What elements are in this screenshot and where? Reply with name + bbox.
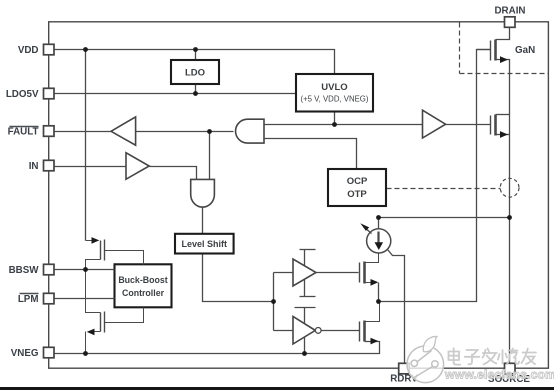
wire IN pin to buffer (55, 166, 127, 168)
svg-text:www.elecfans.com: www.elecfans.com (444, 368, 554, 382)
svg-text:OTP: OTP (347, 189, 367, 200)
wire LDO bottom stub (195, 85, 197, 94)
node driver input (271, 299, 276, 304)
pin squares (44, 17, 516, 374)
op-amp style inverter to FAULT (left pointing triangle) (111, 117, 136, 145)
wire LDO5V rail (55, 93, 297, 95)
wire buffer out to right FET gate (446, 124, 491, 126)
Buck-Boost Controller box (115, 264, 172, 307)
LDO box (171, 60, 219, 84)
svg-text:BBSW: BBSW (9, 265, 40, 276)
wire small AND output to Level Shift (202, 208, 204, 234)
pin LDO5V (44, 88, 55, 99)
wire upper buffer output to FET gate (317, 272, 359, 274)
svg-text:VDD: VDD (18, 45, 39, 56)
svg-text:VNEG: VNEG (11, 348, 39, 359)
Level Shift box (175, 234, 234, 254)
node VNEG/buffer (302, 351, 307, 356)
lower buffer bottom stub to VNEG (304, 338, 306, 354)
dashed GaN region left side (459, 23, 461, 74)
char dian (449, 348, 461, 364)
wire RDRV drop (388, 250, 405, 365)
pin VNEG (44, 347, 55, 358)
svg-text:GaN: GaN (515, 45, 535, 56)
bottom black bar (0, 387, 554, 390)
dashed GaN region bottom side (460, 73, 549, 75)
node FAULT/AND2 (207, 129, 212, 134)
wire right FET source down (496, 134, 510, 136)
char fa (483, 349, 497, 365)
transistor buck-boost upper FET (86, 237, 144, 269)
pin RDRV (399, 363, 410, 374)
node LDO5V/LDO (193, 91, 198, 96)
transistor buck-boost lower FET (86, 270, 144, 354)
IC boundary box (49, 22, 549, 368)
wire LDO top stub (195, 50, 197, 61)
pin FAULT (44, 126, 55, 137)
wire LPM to controller (55, 298, 115, 300)
node isrc rail right (507, 215, 512, 220)
pin DRAIN (505, 17, 516, 28)
transistor mid driver FET upper (360, 253, 379, 302)
pin SOURCE (505, 363, 516, 374)
svg-text:IN: IN (29, 161, 39, 172)
transistor mid driver FET lower (360, 302, 380, 345)
svg-text:LDO: LDO (185, 68, 205, 79)
svg-text:DRAIN: DRAIN (494, 6, 525, 17)
svg-text:Controller: Controller (122, 288, 165, 298)
node VDD/leftdrop (83, 47, 88, 52)
wire VNEG rail (55, 342, 380, 354)
FAULT overline (10, 126, 39, 128)
wire driver input branch vertical (273, 273, 275, 331)
char you (522, 349, 537, 365)
pin BBSW (44, 264, 55, 275)
wire OCP to dashed circle (dashed) (387, 188, 501, 190)
wire DRAIN to GaN drain (496, 28, 510, 40)
upper buffer top supply bar (300, 250, 316, 266)
lower driver inverter triangle (293, 317, 315, 345)
wire AND top input from buffer line (265, 124, 423, 126)
watermark logo (407, 336, 444, 382)
pin IN (44, 160, 55, 171)
node mid FET junction (376, 299, 381, 304)
wire current source top rail (379, 218, 510, 230)
upper driver buffer triangle (293, 259, 316, 286)
node isrc rail left (376, 215, 381, 220)
wire GaN gate drive vertical (379, 50, 491, 302)
wire IN buffer to small AND input (150, 167, 197, 180)
wire right FET drain up (496, 114, 510, 116)
wire UVLO bottom to AND node (334, 112, 336, 125)
dashed current-sense circle (500, 178, 519, 197)
wire lower buffer output to FET gate (322, 330, 360, 332)
svg-text:Level Shift: Level Shift (182, 239, 228, 249)
current source I1 (360, 223, 391, 253)
svg-text:LDO5V: LDO5V (6, 89, 39, 100)
LPM overline (20, 293, 39, 295)
svg-text:FAULT: FAULT (8, 127, 39, 138)
wire VDD rail to UVLO drop (55, 50, 335, 75)
node VDD/LDO (193, 47, 198, 52)
wire BBSW to controller (55, 269, 115, 271)
wire inverter to AND output (136, 131, 234, 133)
buffer IN (right pointing triangle) (126, 153, 149, 180)
node UVLO/AND (332, 122, 337, 127)
char shao (498, 349, 519, 365)
wire lower buffer input (274, 330, 294, 332)
svg-text:UVLO: UVLO (321, 82, 347, 93)
wire upper buffer input (274, 272, 294, 274)
pin LPM (44, 293, 55, 304)
pin VDD (44, 44, 55, 55)
wire AND bottom input from OCP (265, 139, 357, 170)
svg-text:(+5 V, VDD, VNEG): (+5 V, VDD, VNEG) (301, 95, 369, 104)
UVLO box U3 (296, 74, 373, 112)
svg-text:LPM: LPM (18, 294, 39, 305)
transistor GaN power FET (477, 40, 509, 64)
node BBSW (83, 267, 88, 272)
AND gate U1 (pointing left) (236, 119, 264, 143)
OCP OTP box (328, 169, 386, 206)
upper buffer bottom supply bar (300, 280, 316, 297)
wire left VDD drop vertical (85, 50, 87, 241)
watermark chinese text (vector strokes, CJK font unavailable) (449, 348, 537, 364)
node VNEG/leftdrop (83, 351, 88, 356)
wire FAULT node down to small AND input (209, 132, 211, 180)
wire Level Shift to driver input node (203, 254, 274, 302)
inverter bubble (315, 328, 321, 334)
svg-text:OCP: OCP (347, 176, 368, 187)
char zi (465, 350, 480, 364)
transistor right driver FET upper (491, 115, 509, 138)
svg-text:Buck-Boost: Buck-Boost (118, 275, 167, 285)
buffer to GaN gate driver (right pointing triangle) (423, 110, 446, 138)
wire GaN source down to SOURCE pin (496, 60, 510, 364)
wire FAULT pin to inverter (55, 131, 112, 133)
AND gate U2 (pointing down) (191, 179, 215, 207)
lower buffer top supply bar (295, 308, 316, 324)
